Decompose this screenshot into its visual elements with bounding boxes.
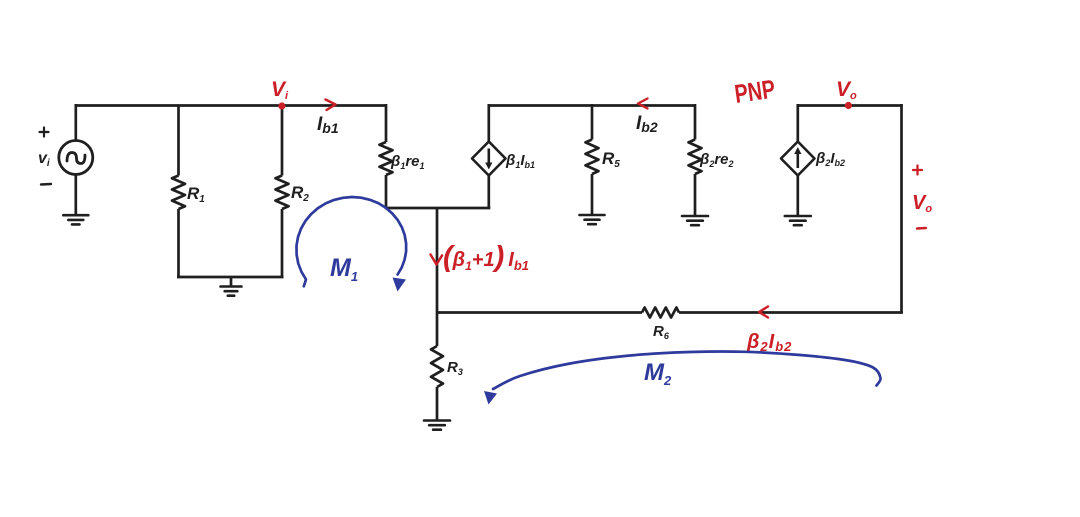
resistor R6	[642, 308, 679, 318]
wire: R2 bottom lead	[281, 209, 284, 277]
wire: beta1re1 top lead	[385, 104, 388, 142]
svg-text:β1re1: β1re1	[390, 153, 425, 171]
wire: R5 top lead	[591, 104, 594, 140]
wire: right vertical rail	[900, 104, 903, 314]
ground under R1-R2 rail	[221, 287, 242, 296]
wire: R3 top lead	[436, 314, 439, 347]
wire: ground stub mid	[230, 277, 233, 286]
ground under R3	[424, 421, 450, 430]
loop arrow M1 (blue arc)	[297, 197, 407, 286]
label minus (source)	[41, 183, 51, 186]
source Vi (AC source)	[59, 141, 93, 175]
wire: beta1re1 bottom lead	[385, 175, 388, 208]
wire: R2 branch top lead	[281, 106, 284, 176]
op: dependent source beta2Ib2 (diamond, arrow up)	[781, 142, 815, 176]
wire: diamond2 bottom lead	[796, 176, 799, 216]
wire: R1 bottom lead	[177, 209, 180, 277]
resistor beta2re2	[689, 140, 702, 175]
wire: diamond2 top lead	[796, 104, 799, 142]
wire: R3 bottom lead	[436, 387, 439, 420]
current arrow Ib1 (red chevron)	[326, 100, 336, 111]
label + (output, red)	[913, 166, 922, 175]
op: dependent source beta1Ib1 (diamond, arrow down)	[472, 142, 506, 176]
wire: R1 branch top lead	[177, 106, 180, 176]
wire: diamond1 top lead	[487, 104, 490, 142]
ground under diamond2	[785, 216, 811, 225]
wire: bottom rail right segment	[679, 311, 903, 314]
current arrow Ib2 (red chevron)	[638, 99, 648, 109]
loop arrow M2 (blue curve)	[493, 351, 881, 389]
current arrow (beta1+1)Ib1 (red chevron down)	[431, 255, 443, 265]
wire: top rail diamond2 to right edge	[798, 104, 903, 107]
wire: R5 bottom lead	[591, 174, 594, 214]
ground under source	[63, 215, 88, 224]
wire: bottom rail joining R1 and R2	[177, 276, 284, 279]
current arrow beta2Ib2 on bottom rail (red chevron)	[759, 307, 768, 318]
label minus (output, red)	[917, 227, 926, 230]
svg-text:β2re2: β2re2	[699, 151, 734, 169]
resistor R5	[586, 140, 599, 175]
ground under beta2re2	[682, 216, 708, 225]
wire: top rail from source to beta1re1	[76, 104, 386, 107]
resistor beta1re1	[380, 142, 393, 175]
node Vo (red dot)	[845, 102, 852, 109]
resistor R3	[431, 346, 443, 387]
resistor R2	[276, 176, 289, 210]
wire: lower rail beta1re1 to source diamond	[385, 207, 491, 210]
label + (source plus)	[40, 128, 49, 137]
wire: source bottom lead	[74, 175, 77, 215]
node Vi (red dot)	[278, 102, 285, 109]
resistor R1	[172, 176, 185, 210]
ground under R5	[580, 215, 605, 224]
wire: top rail diamond1 to beta2re2	[489, 104, 695, 107]
label PNP (red)	[733, 74, 777, 109]
svg-text:PNP: PNP	[733, 74, 777, 109]
wire: bottom rail left segment	[437, 311, 642, 314]
wire: beta2re2 top lead	[694, 104, 697, 140]
wire: center vertical (emitter)	[436, 208, 439, 314]
wire: diamond1 bottom lead	[487, 176, 490, 209]
wire: source top lead	[74, 104, 77, 141]
wire: beta2re2 bottom lead	[694, 174, 697, 215]
